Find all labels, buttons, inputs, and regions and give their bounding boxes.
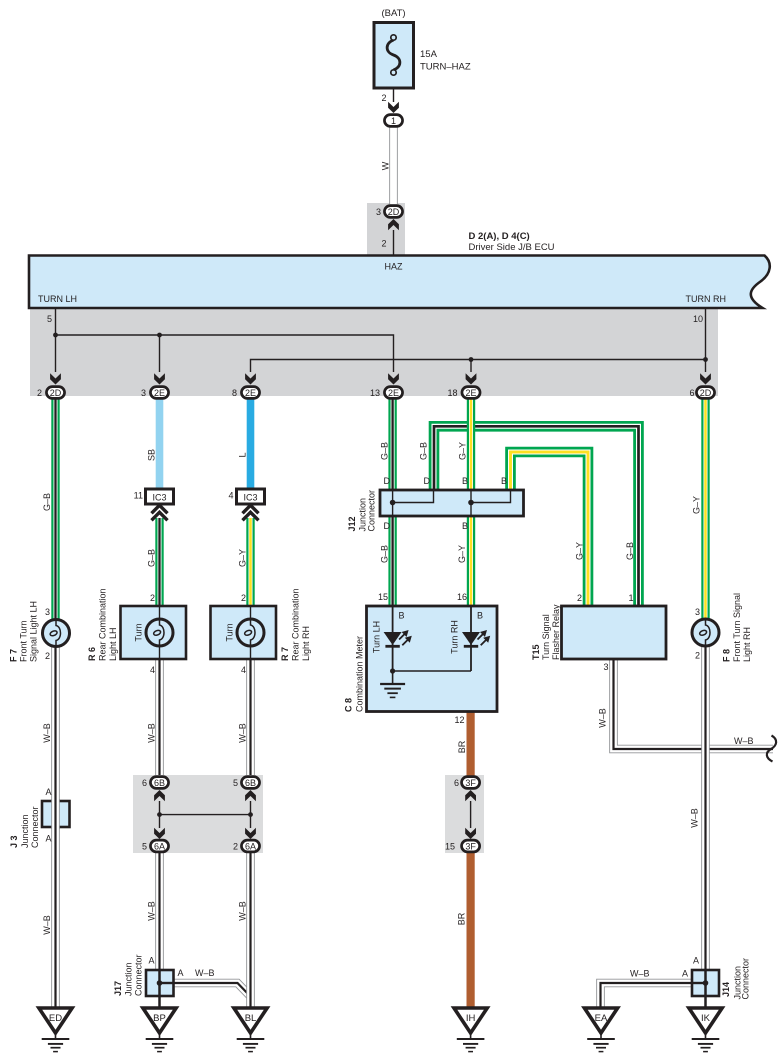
svg-text:J17: J17 bbox=[113, 981, 123, 996]
svg-text:3: 3 bbox=[603, 662, 608, 672]
svg-text:B: B bbox=[501, 476, 507, 486]
svg-text:3: 3 bbox=[695, 607, 700, 617]
svg-text:15: 15 bbox=[445, 842, 455, 852]
svg-text:W–B: W–B bbox=[147, 723, 157, 743]
svg-text:BP: BP bbox=[153, 1013, 166, 1024]
svg-text:B: B bbox=[477, 611, 483, 621]
svg-text:Light RH: Light RH bbox=[301, 626, 311, 661]
svg-text:C 8: C 8 bbox=[344, 698, 354, 712]
svg-text:Connector: Connector bbox=[134, 954, 144, 996]
svg-text:Connector: Connector bbox=[741, 958, 751, 1000]
svg-text:D: D bbox=[384, 476, 391, 486]
svg-text:W–B: W–B bbox=[42, 915, 52, 935]
svg-text:Light RH: Light RH bbox=[742, 627, 752, 662]
svg-text:(BAT): (BAT) bbox=[381, 8, 405, 19]
svg-text:D 2(A), D 4(C): D 2(A), D 4(C) bbox=[469, 231, 530, 242]
svg-text:11: 11 bbox=[134, 491, 143, 501]
svg-text:G–B: G–B bbox=[380, 442, 390, 460]
svg-text:EA: EA bbox=[595, 1013, 608, 1024]
svg-text:G–Y: G–Y bbox=[238, 549, 248, 567]
svg-text:W: W bbox=[381, 161, 391, 170]
svg-text:TURN RH: TURN RH bbox=[686, 294, 727, 304]
svg-text:18: 18 bbox=[447, 388, 457, 398]
svg-text:G–Y: G–Y bbox=[458, 442, 468, 460]
svg-text:5: 5 bbox=[142, 842, 147, 852]
svg-text:15: 15 bbox=[378, 592, 388, 602]
svg-text:B: B bbox=[462, 521, 468, 531]
svg-text:6: 6 bbox=[454, 778, 459, 788]
svg-text:D: D bbox=[424, 476, 431, 486]
svg-text:1: 1 bbox=[628, 593, 633, 603]
svg-text:TURN–HAZ: TURN–HAZ bbox=[420, 62, 471, 73]
svg-text:2: 2 bbox=[381, 239, 386, 249]
svg-text:TURN LH: TURN LH bbox=[38, 294, 77, 304]
svg-text:3F: 3F bbox=[465, 778, 476, 788]
svg-text:A: A bbox=[45, 787, 51, 797]
svg-text:Light LH: Light LH bbox=[108, 627, 118, 661]
svg-text:4: 4 bbox=[241, 665, 246, 675]
svg-text:SB: SB bbox=[147, 449, 157, 461]
svg-text:Rear Combination: Rear Combination bbox=[98, 588, 108, 661]
svg-text:F 7: F 7 bbox=[9, 649, 19, 662]
svg-text:3F: 3F bbox=[465, 841, 476, 851]
svg-text:2E: 2E bbox=[388, 388, 399, 398]
svg-text:2: 2 bbox=[695, 651, 700, 661]
svg-text:2: 2 bbox=[150, 593, 155, 603]
svg-text:G–B: G–B bbox=[625, 542, 635, 560]
svg-text:A: A bbox=[148, 956, 154, 966]
svg-text:Flasher Relay: Flasher Relay bbox=[551, 604, 561, 660]
svg-text:2E: 2E bbox=[245, 388, 256, 398]
svg-text:G–B: G–B bbox=[419, 442, 429, 460]
svg-text:W–B: W–B bbox=[195, 968, 215, 978]
svg-text:12: 12 bbox=[454, 715, 464, 725]
svg-text:3: 3 bbox=[45, 607, 50, 617]
svg-text:G–B: G–B bbox=[380, 545, 390, 563]
svg-text:Signal Light LH: Signal Light LH bbox=[29, 601, 39, 662]
svg-text:15A: 15A bbox=[420, 49, 438, 60]
svg-text:T15: T15 bbox=[531, 644, 541, 660]
svg-text:D: D bbox=[384, 521, 391, 531]
svg-text:W–B: W–B bbox=[630, 969, 650, 979]
svg-text:Front Turn Signal: Front Turn Signal bbox=[732, 593, 742, 662]
svg-text:Turn LH: Turn LH bbox=[372, 621, 382, 653]
svg-text:2: 2 bbox=[381, 93, 386, 103]
svg-text:BR: BR bbox=[457, 740, 467, 753]
svg-text:Junction: Junction bbox=[124, 962, 134, 996]
svg-text:J12: J12 bbox=[347, 516, 357, 531]
svg-text:W–B: W–B bbox=[238, 901, 248, 921]
svg-text:IH: IH bbox=[466, 1013, 476, 1024]
svg-text:W–B: W–B bbox=[690, 808, 700, 828]
svg-text:3: 3 bbox=[141, 388, 146, 398]
svg-text:A: A bbox=[682, 969, 688, 979]
svg-text:8: 8 bbox=[232, 388, 237, 398]
svg-text:J 3: J 3 bbox=[9, 835, 19, 848]
svg-text:R 7: R 7 bbox=[280, 647, 290, 661]
svg-text:Turn RH: Turn RH bbox=[450, 620, 460, 654]
svg-text:J14: J14 bbox=[721, 982, 731, 997]
svg-text:4: 4 bbox=[150, 665, 155, 675]
svg-text:R 6: R 6 bbox=[87, 647, 97, 661]
svg-text:Connector: Connector bbox=[30, 806, 40, 848]
svg-text:Junction: Junction bbox=[20, 814, 30, 848]
svg-text:5: 5 bbox=[233, 778, 238, 788]
svg-text:13: 13 bbox=[370, 388, 380, 398]
svg-text:A: A bbox=[693, 956, 699, 966]
svg-text:2D: 2D bbox=[50, 388, 62, 398]
svg-text:Driver Side J/B ECU: Driver Side J/B ECU bbox=[469, 242, 555, 253]
svg-text:6: 6 bbox=[142, 778, 147, 788]
svg-text:2: 2 bbox=[37, 388, 42, 398]
svg-text:G–B: G–B bbox=[42, 493, 52, 511]
svg-text:F 8: F 8 bbox=[722, 649, 732, 662]
svg-text:4: 4 bbox=[228, 491, 233, 501]
svg-text:Rear Combination: Rear Combination bbox=[291, 588, 301, 661]
svg-text:G–B: G–B bbox=[147, 549, 157, 567]
svg-text:W–B: W–B bbox=[734, 736, 754, 746]
svg-text:2: 2 bbox=[577, 593, 582, 603]
svg-text:3: 3 bbox=[376, 207, 381, 217]
svg-text:2D: 2D bbox=[388, 207, 400, 217]
svg-text:6B: 6B bbox=[245, 778, 256, 788]
svg-text:Combination Meter: Combination Meter bbox=[355, 636, 365, 712]
svg-text:6B: 6B bbox=[154, 778, 165, 788]
svg-text:W–B: W–B bbox=[42, 723, 52, 743]
svg-text:6A: 6A bbox=[154, 841, 165, 851]
svg-text:IK: IK bbox=[701, 1013, 711, 1024]
svg-text:2D: 2D bbox=[700, 388, 712, 398]
svg-text:G–Y: G–Y bbox=[692, 496, 702, 514]
svg-text:L: L bbox=[238, 452, 248, 457]
svg-text:BL: BL bbox=[245, 1013, 257, 1024]
svg-text:A: A bbox=[45, 834, 51, 844]
svg-text:2E: 2E bbox=[465, 388, 476, 398]
svg-text:HAZ: HAZ bbox=[385, 262, 404, 272]
svg-text:A: A bbox=[178, 968, 184, 978]
svg-text:2: 2 bbox=[233, 842, 238, 852]
svg-text:16: 16 bbox=[457, 592, 467, 602]
svg-text:5: 5 bbox=[47, 314, 52, 324]
svg-text:1: 1 bbox=[391, 116, 396, 126]
svg-text:Turn: Turn bbox=[225, 623, 235, 641]
svg-text:W–B: W–B bbox=[147, 901, 157, 921]
svg-text:Turn: Turn bbox=[134, 623, 144, 641]
svg-text:6: 6 bbox=[689, 388, 694, 398]
svg-text:W–B: W–B bbox=[598, 708, 608, 728]
svg-text:2: 2 bbox=[45, 651, 50, 661]
svg-text:6A: 6A bbox=[245, 841, 256, 851]
svg-text:Connector: Connector bbox=[367, 490, 377, 532]
svg-text:W–B: W–B bbox=[238, 723, 248, 743]
svg-text:Turn Signal: Turn Signal bbox=[541, 614, 551, 660]
svg-text:B: B bbox=[399, 611, 405, 621]
svg-text:2E: 2E bbox=[154, 388, 165, 398]
svg-text:IC3: IC3 bbox=[243, 493, 257, 503]
svg-text:Front Turn: Front Turn bbox=[19, 620, 29, 662]
svg-text:IC3: IC3 bbox=[152, 493, 166, 503]
svg-text:ED: ED bbox=[49, 1013, 62, 1024]
svg-text:2: 2 bbox=[241, 593, 246, 603]
svg-text:B: B bbox=[462, 476, 468, 486]
svg-text:G–Y: G–Y bbox=[575, 542, 585, 560]
svg-text:10: 10 bbox=[693, 314, 703, 324]
svg-text:BR: BR bbox=[457, 912, 467, 925]
svg-text:G–Y: G–Y bbox=[457, 545, 467, 563]
